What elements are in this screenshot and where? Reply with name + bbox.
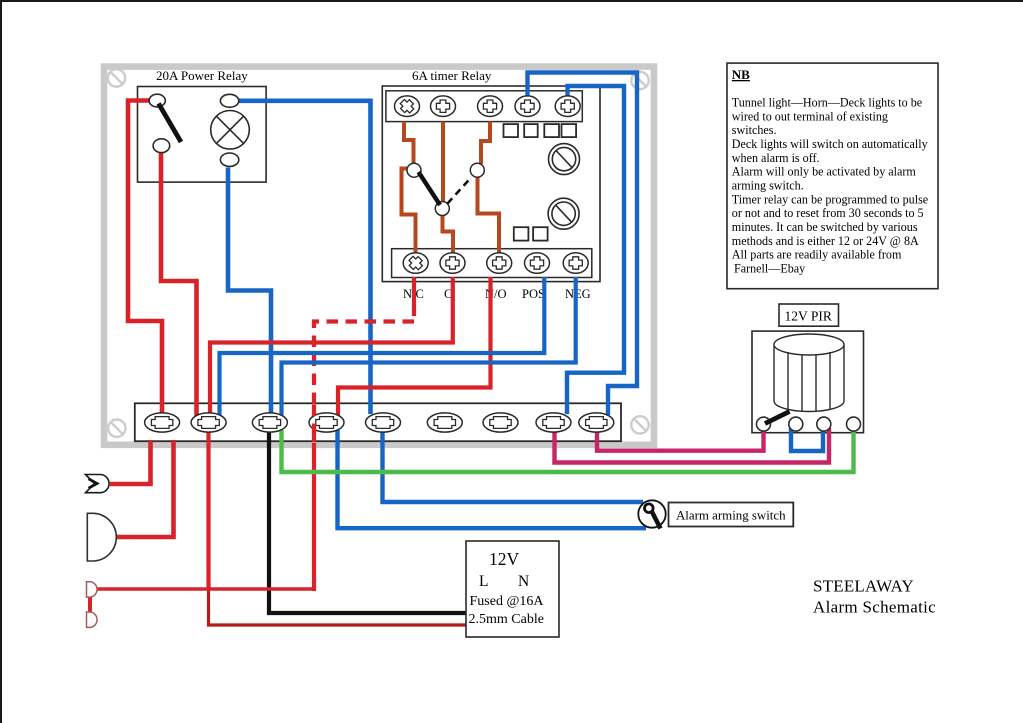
relay switch contact top: [149, 94, 165, 107]
svg-text:Deck lights will switch on aut: Deck lights will switch on automatically: [732, 137, 928, 151]
PIR switch lever: [765, 412, 790, 424]
timer top terminal t2: [431, 96, 456, 117]
wire red C terminal to terminal 2: [210, 277, 453, 415]
wire orange timer t1 to left contact: [404, 122, 414, 165]
svg-text:12V PIR: 12V PIR: [785, 309, 832, 324]
terminal strip block: [135, 403, 621, 441]
svg-text:minutes. It can be switched by: minutes. It can be switched by various: [732, 220, 918, 234]
svg-text:N: N: [518, 573, 529, 590]
LED D2: [87, 612, 98, 627]
supply box 12V: [466, 541, 559, 637]
wire red relay switch bottom to terminal 2: [161, 152, 197, 417]
panel screw top-left: [108, 69, 125, 86]
svg-text:POS: POS: [522, 287, 545, 301]
wire red LED to junction: [95, 587, 314, 591]
wire green terminal 3 to PIR t4: [282, 428, 854, 472]
timer top terminal t5: [555, 96, 580, 117]
strip terminal 8: [536, 413, 571, 432]
alarm arming switch label box: [669, 503, 794, 527]
timer top terminal t3: [478, 96, 503, 117]
svg-text:or not and to reset from 30 se: or not and to reset from 30 seconds to 5: [732, 206, 924, 220]
strip terminal 2: [191, 413, 226, 432]
panel screw top-right: [631, 72, 648, 89]
wire dark red junction to 12V box N: [209, 589, 467, 625]
lamp symbol circle with X: [211, 111, 250, 150]
timer contact right: [470, 163, 484, 177]
timer bottom terminal POS: [525, 253, 550, 274]
wire red terminal 4 column to LED junction: [312, 443, 316, 591]
wire red dashed N/C to terminal 4 column: [314, 322, 414, 444]
timer top terminal t4: [515, 96, 540, 117]
wire orange right contact to N/O terminal: [478, 176, 500, 256]
timer bottom terminal N/O: [487, 253, 512, 274]
timer bottom terminal NEG: [563, 253, 588, 274]
timer switch lever dashed: [448, 177, 472, 204]
wire orange timer t2 to common contact: [441, 122, 445, 204]
panel screw bottom-right: [631, 416, 648, 433]
wire pink terminal 8 to PIR t3: [555, 428, 830, 463]
timer top terminal t1: [395, 96, 420, 117]
wire blue timer t4 to terminal 9: [528, 73, 638, 416]
PIR sensor box: [752, 331, 864, 433]
timer relay U1 box 6A timer Relay: [382, 86, 600, 282]
wire blue NEG terminal to terminal 3: [282, 277, 576, 416]
relay switch contact bottom: [153, 139, 170, 153]
timer top terminal block: [386, 91, 582, 122]
strip terminal 9: [579, 413, 614, 432]
svg-text:wired to out terminal of exist: wired to out terminal of existing: [732, 109, 888, 123]
timer jumper square 1: [514, 227, 529, 240]
wire red terminal 1 to bell: [117, 440, 174, 537]
svg-text:L: L: [479, 573, 488, 590]
timer bottom terminal C: [440, 253, 465, 274]
timer switch lever solid: [419, 172, 441, 205]
strip terminal 7: [483, 413, 518, 432]
relay K1 box 20A Power Relay: [138, 87, 267, 183]
wire blue lamp top to terminal 5: [239, 101, 371, 414]
svg-text:N/O: N/O: [485, 287, 507, 301]
lamp terminal bottom: [220, 153, 238, 166]
svg-text:2.5mm Cable: 2.5mm Cable: [469, 612, 544, 627]
page border left: [0, 0, 2, 723]
alarm arming switch circle: [638, 500, 665, 527]
svg-text:Fused @16A: Fused @16A: [470, 594, 545, 609]
wire orange left contact to N/C terminal: [402, 169, 416, 257]
PIR terminal 2: [789, 417, 803, 431]
timer DIP switch 1: [504, 124, 519, 137]
strip terminal 6: [427, 413, 462, 432]
svg-text:20A Power Relay: 20A Power Relay: [156, 68, 248, 83]
timer DIP switch 3: [544, 124, 559, 137]
svg-text:Alarm arming switch: Alarm arming switch: [676, 508, 786, 522]
wire red terminal 2 down to LED junction: [206, 429, 210, 589]
svg-text:All parts are readily availabl: All parts are readily available from: [732, 248, 902, 262]
wire black terminal 3 to 12V box L: [269, 430, 466, 613]
timer contact left: [407, 163, 421, 177]
wire blue terminal 4 to arming switch: [338, 430, 647, 528]
wire orange common contact to C terminal: [443, 215, 454, 257]
strip terminal 5: [366, 413, 401, 432]
svg-text:Tunnel light—Horn—Deck lights: Tunnel light—Horn—Deck lights to be: [732, 96, 922, 110]
wire orange timer t3 to right contact: [481, 122, 490, 165]
PIR terminal 4: [847, 417, 861, 431]
lamp terminal top: [220, 94, 238, 107]
PIR label box 12V PIR: [779, 304, 839, 326]
PIR fresnel cylinder: [774, 334, 844, 412]
timer adjustment dial 1: [549, 144, 580, 175]
wire blue timer t5 to terminal 8: [567, 86, 624, 414]
svg-text:arming switch.: arming switch.: [732, 179, 804, 193]
wire blue terminal 5 to arming switch: [383, 430, 644, 502]
wire blue POS terminal to terminal 2: [220, 277, 545, 416]
PIR terminal 1: [757, 417, 771, 431]
wire pink terminal 9 to PIR t1: [597, 428, 764, 451]
timer bottom terminal block: [392, 249, 592, 278]
svg-text:Alarm Schematic: Alarm Schematic: [813, 598, 936, 617]
LED D1: [87, 582, 98, 597]
svg-text:12V: 12V: [489, 549, 520, 569]
wire blue lamp bottom to terminal 3: [228, 168, 271, 415]
relay switch lever: [159, 104, 182, 143]
svg-text:Farnell—Ebay: Farnell—Ebay: [734, 262, 805, 276]
alarm arming switch key: [645, 504, 654, 513]
wire blue PIR t2 to t3 link: [791, 428, 823, 451]
svg-text:when alarm is off.: when alarm is off.: [732, 151, 820, 165]
wire red relay switch top to terminal 1: [128, 101, 162, 415]
timer contact common: [435, 202, 449, 216]
svg-text:methods and is either 12 or 24: methods and is either 12 or 24V @ 8A: [732, 234, 919, 248]
NB note box: [727, 63, 938, 289]
wire red N/C terminal down: [412, 277, 416, 316]
wire red N/O terminal to terminal 4: [338, 277, 491, 416]
svg-text:switches.: switches.: [732, 123, 777, 137]
horn symbol: [86, 475, 110, 493]
strip terminal 1: [145, 413, 180, 432]
strip terminal 4: [309, 413, 344, 432]
timer adjustment dial 2: [548, 198, 579, 229]
page border top: [0, 0, 1023, 2]
svg-text:STEELAWAY: STEELAWAY: [813, 577, 914, 596]
panel screw bottom-left: [108, 420, 125, 437]
timer DIP switch 2: [524, 124, 538, 137]
timer bottom terminal N/C: [403, 253, 428, 274]
svg-text:Alarm will only be activated b: Alarm will only be activated by alarm: [732, 165, 917, 179]
timer DIP switch 4: [562, 124, 577, 137]
panel enclosure: [104, 67, 654, 445]
wire red terminal 1 to horn: [110, 440, 151, 484]
wire red LED link: [88, 596, 92, 613]
bell symbol: [87, 513, 116, 561]
timer jumper square 2: [533, 227, 548, 240]
svg-text:6A timer Relay: 6A timer Relay: [412, 68, 492, 83]
wire red dashed over strip at terminal 4: [312, 405, 316, 442]
svg-text:NB: NB: [732, 67, 750, 82]
svg-text:NEG: NEG: [565, 287, 591, 301]
PIR terminal 3: [817, 417, 831, 431]
svg-text:Timer relay can be programmed: Timer relay can be programmed to pulse: [732, 192, 928, 206]
strip terminal 3: [252, 413, 287, 432]
